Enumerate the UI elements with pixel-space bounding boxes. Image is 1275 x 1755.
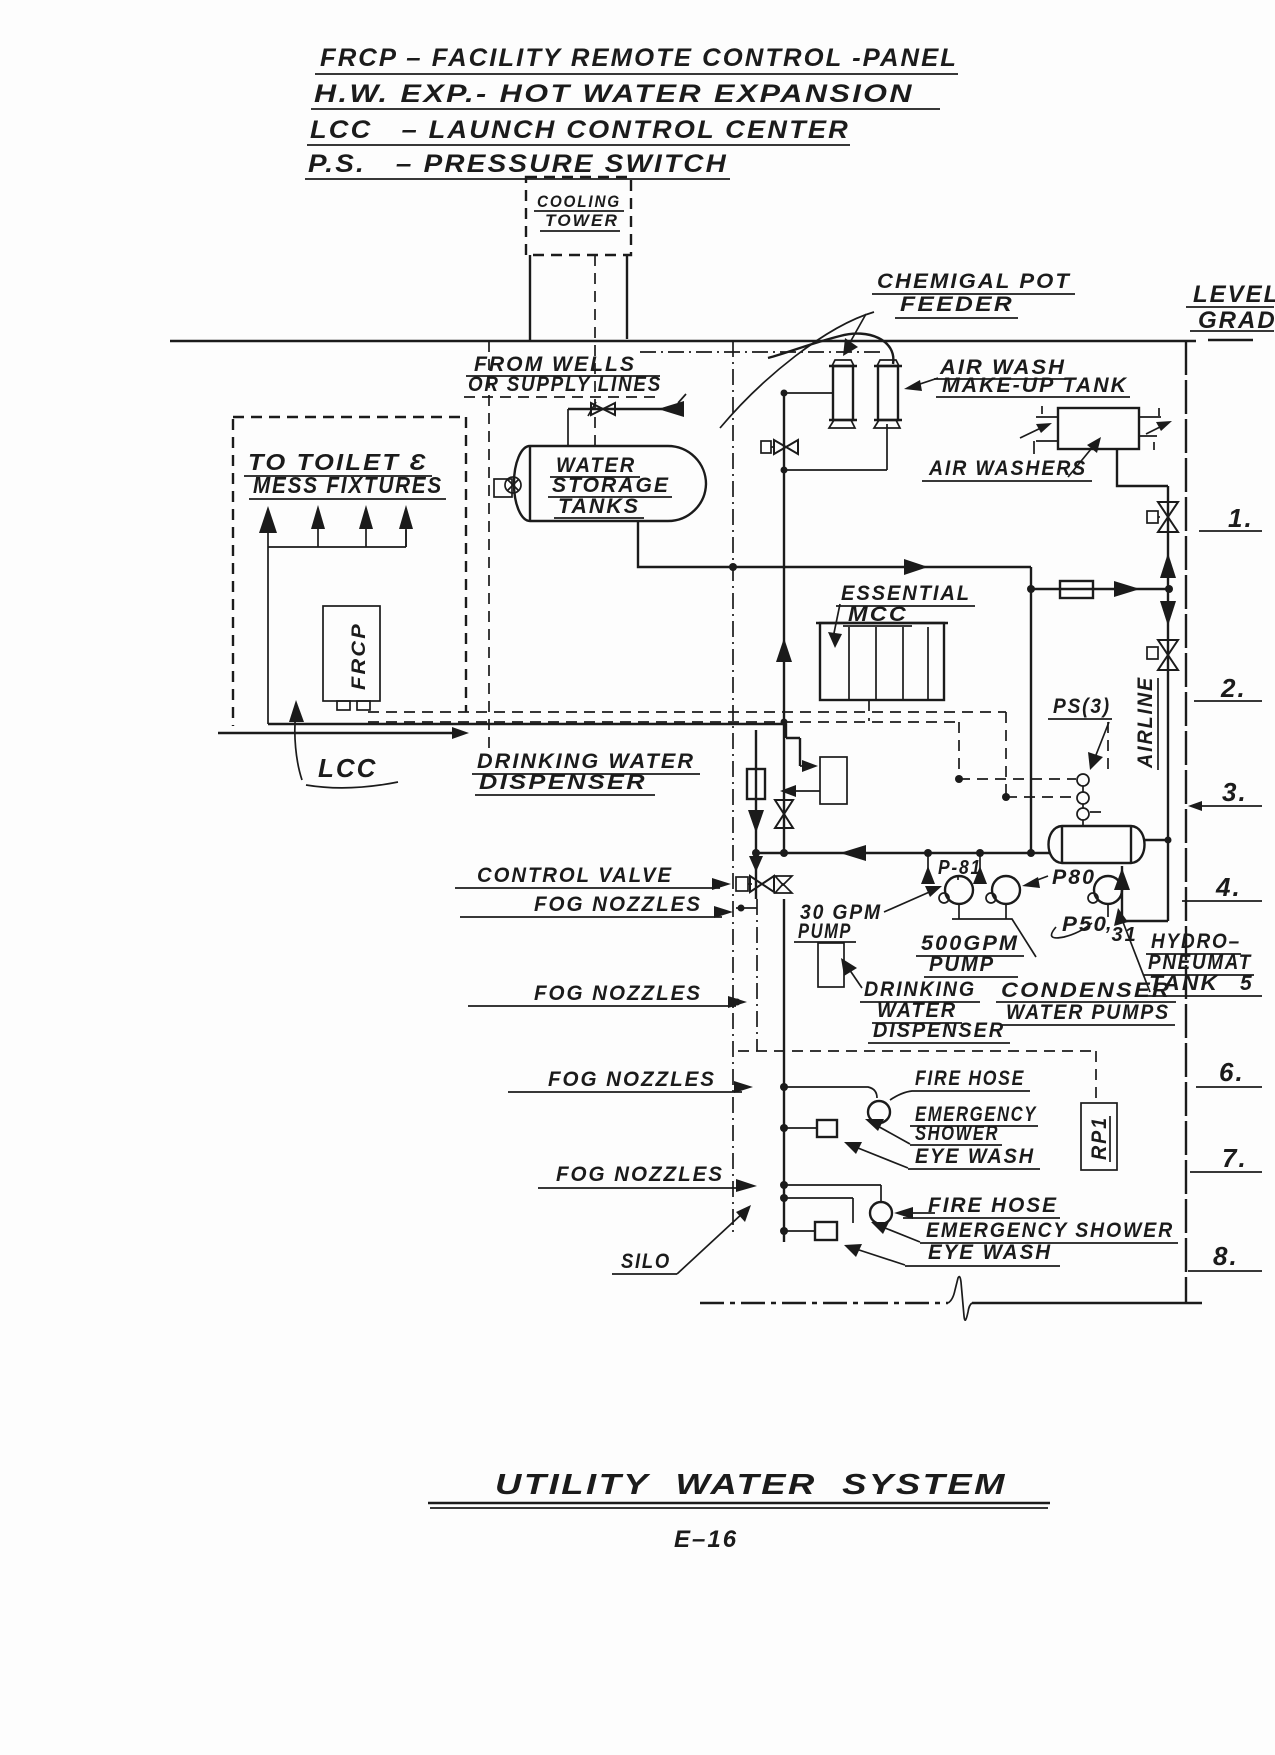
eye wash 2 branches [780,1194,853,1235]
toilet-mess dashed box [233,417,466,726]
eye wash 1 [817,1120,837,1137]
fog nozzles label 4 [538,1163,757,1192]
svg-text:STORAGE: STORAGE [552,474,670,497]
svg-text:TANKS: TANKS [558,495,640,518]
junction dot riser x784 and control line [781,719,788,726]
relief valve on feeder riser [775,800,793,828]
air washer outlet pipe [1117,449,1168,486]
svg-text:P80: P80 [1052,866,1096,889]
dashed vertical at x489 [488,341,490,758]
riser down arrow [748,810,764,833]
RP1 box [1081,1103,1117,1170]
airline up arrow [1160,553,1176,578]
condenser water pumps label [996,979,1176,1025]
svg-text:RP1: RP1 [1088,1116,1111,1160]
svg-text:FOG NOZZLES: FOG NOZZLES [534,982,702,1005]
fire hose 2 branch [780,1181,881,1202]
svg-text:MESS FIXTURES: MESS FIXTURES [253,472,443,498]
control line A to switch 2 [1002,793,1076,801]
PS(3) label [1048,695,1112,770]
svg-text:P.S. – PRESSURE SWITCH: P.S. – PRESSURE SWITCH [308,150,728,178]
hydro-pneumat tank label [1143,930,1262,996]
svg-text:ESSENTIAL: ESSENTIAL [841,582,971,605]
valve below air washers [1147,502,1178,532]
legend line PS [305,150,730,179]
water storage tank [494,446,706,521]
emergency shower 1 label [865,1103,1038,1145]
dashed control line A from FRCP [368,712,1006,797]
control valve label [455,864,731,890]
cooling tower box [526,177,631,255]
air wash make-up tank label [904,356,1130,397]
riser down arrow 2 [749,856,763,872]
svg-text:6.: 6. [1219,1057,1245,1087]
pump P-81 [939,876,973,904]
pump 500gpm riser [973,853,987,884]
legend line HW EXP [311,80,940,109]
riser dashed continuation [756,899,758,1051]
supply line from wells [568,394,686,417]
fixture arrow 4 [399,505,413,547]
tank outlet to airline [1143,837,1172,844]
svg-text:DISPENSER: DISPENSER [479,771,647,794]
dashed control line B from FRCP [368,722,959,779]
feeder outlet pipe [781,424,888,474]
airline vertical pipe [1167,486,1169,921]
pressure switch circles [1077,774,1089,827]
svg-text:OR SUPPLY LINES: OR SUPPLY LINES [468,373,662,396]
svg-text:HYDRO–: HYDRO– [1151,930,1241,953]
loop pipe over vessels [768,334,893,364]
P-81 label [938,857,982,880]
cooling tower right leg [626,255,628,339]
fixture header pipe [268,530,406,547]
eye wash 2 [815,1222,837,1240]
chemical pot feeder vessel [829,360,857,428]
fog nozzles label 3 [508,1068,753,1093]
riser pipe x756 [755,730,757,899]
svg-text:MAKE-UP TANK: MAKE-UP TANK [942,374,1128,397]
airline down arrow [1160,601,1176,626]
legend line LCC [307,116,850,145]
svg-text:PUMP: PUMP [798,920,852,943]
main header pipe to MCC column [729,559,1031,575]
svg-text:E–16: E–16 [674,1526,738,1553]
svg-text:FOG NOZZLES: FOG NOZZLES [548,1068,716,1091]
hydro tank label leader [1114,908,1150,992]
hydro-pneumatic tank [1049,826,1145,863]
drinking water dispenser lower label [860,978,1010,1043]
label TO TOILET AND MESS FIXTURES [244,449,446,499]
fixture arrow 1 [259,506,277,547]
svg-text:AIR WASHERS: AIR WASHERS [928,457,1087,480]
tank outlet pipe [638,521,733,567]
pump drain piping [952,904,1036,957]
svg-text:SILO: SILO [621,1250,671,1273]
fire hose 1 label [890,1067,1030,1100]
svg-text:FRCP – FACILITY REMOTE CONTROL: FRCP – FACILITY REMOTE CONTROL -PANEL [320,44,958,72]
left short level line [218,727,469,739]
drinking water dispenser upper box [800,757,847,804]
PS dashed boundary [1090,722,1108,812]
svg-text:8.: 8. [1213,1241,1239,1271]
level tick 3 [1188,777,1262,811]
svg-text:FRCP: FRCP [349,622,370,690]
fixture arrow 2 [311,505,325,547]
svg-text:AIRLINE: AIRLINE [1134,676,1157,769]
svg-text:TANK: TANK [1149,972,1219,995]
svg-text:5: 5 [1240,972,1254,995]
strainer on riser [747,769,765,799]
chemical pot feeder label [843,270,1075,356]
svg-text:P-81: P-81 [938,857,982,879]
svg-text:EYE WASH: EYE WASH [915,1145,1035,1168]
svg-text:PUMP: PUMP [929,953,995,976]
level header text GRADE [1190,307,1275,334]
pump 500gpm [986,876,1020,904]
silo wall dash-dot vertical [732,341,734,1233]
LCC label [306,753,398,788]
feeder riser vertical [776,393,792,853]
cooling tower center dashed drop to tank [594,255,596,446]
pump P-81 riser [921,853,935,884]
30 gpm pump label [794,886,942,943]
svg-text:CONDENSER: CONDENSER [1001,979,1171,1002]
air washers label [922,437,1101,481]
airline elbow to pumps [1114,866,1168,921]
500 gpm pump label [916,932,1024,977]
svg-text:3.: 3. [1222,777,1248,807]
feeder inlet pipe [781,390,834,397]
svg-text:COOLING: COOLING [537,192,621,211]
level tick 7 [1190,1143,1262,1173]
svg-text:PS(3): PS(3) [1053,695,1111,718]
chemical pot feeder leader curve [720,312,874,428]
dispenser outlet arrow left [780,785,820,797]
supply line to fixtures [268,724,800,766]
level tick 6 [1196,1057,1262,1087]
fixture arrow 3 [359,505,373,547]
air washers box [1020,406,1172,454]
LCC leader arrow [289,700,304,780]
svg-text:EMERGENCY SHOWER: EMERGENCY SHOWER [926,1219,1174,1242]
svg-text:CONTROL VALVE: CONTROL VALVE [477,864,673,887]
svg-text:LEVEL: LEVEL [1193,281,1275,308]
eye wash 1 branch [780,1124,817,1132]
essential MCC box [816,623,948,700]
svg-text:DISPENSER: DISPENSER [873,1019,1005,1042]
svg-text:4.: 4. [1215,872,1242,902]
svg-text:CHEMIGAL POT: CHEMIGAL POT [877,270,1071,293]
control line B to switch 1 [955,775,1076,783]
level tick 1 [1199,503,1262,533]
right border vertical line [1185,341,1187,1303]
bottom boundary line with break [700,1277,1202,1321]
emergency shower 2 label [871,1219,1178,1243]
cooling tower left leg [529,255,531,341]
level tick 4 [1182,872,1262,902]
legend line FRCP [315,44,958,74]
dashed drop from MCC [868,700,870,721]
AIRLINE text [1134,676,1158,770]
fire hose 1 [868,1101,890,1123]
control valve assembly [736,876,774,892]
fog nozzles label 1 [460,893,757,918]
dash-dot line below grade [640,351,880,353]
svg-text:PNEUMAT: PNEUMAT [1148,951,1252,974]
essential MCC label [828,582,975,648]
svg-text:500GPM: 500GPM [921,932,1019,955]
condenser pump P50 [1088,876,1122,917]
FRCP box [323,606,380,710]
feeder riser valve [761,440,798,454]
fixture drop pipe [267,547,269,724]
supply drop to tank [567,409,569,446]
svg-text:FIRE HOSE: FIRE HOSE [928,1194,1058,1217]
svg-text:UTILITY WATER SYSTEM: UTILITY WATER SYSTEM [495,1469,1007,1501]
air wash make-up tank vessel [874,360,902,428]
svg-text:DRINKING WATER: DRINKING WATER [477,750,695,773]
fire hose 1 branch [780,1083,877,1098]
silo label [612,1205,751,1274]
svg-text:H.W. EXP.- HOT WATER EXPANSION: H.W. EXP.- HOT WATER EXPANSION [314,80,914,108]
svg-text:7.: 7. [1222,1143,1248,1173]
dashed line to RP1 [738,1051,1096,1103]
grade line [170,340,1253,341]
svg-text:2.: 2. [1220,673,1247,703]
svg-text:LCC – LAUNCH CONTROL CENTER: LCC – LAUNCH CONTROL CENTER [310,116,850,144]
drinking water dispenser label upper [472,750,700,795]
level header text LEVEL [1186,281,1275,308]
svg-text:FEEDER: FEEDER [900,293,1014,316]
svg-text:LCC: LCC [318,753,377,783]
water storage tank label [548,454,672,518]
second valve on feeder riser [775,876,792,893]
drinking water dispenser lower box [818,943,862,988]
fire hose 2 [870,1202,892,1224]
fire hose 2 label [894,1194,1060,1219]
main pump header pipe [752,845,1050,861]
eye wash 1 label [844,1142,1040,1169]
hose riser group 1 vertical [783,899,785,1242]
branch to airline [1027,581,1173,598]
svg-text:FOG NOZZLES: FOG NOZZLES [556,1163,724,1186]
svg-text:EYE WASH: EYE WASH [928,1241,1052,1264]
from wells label [464,353,662,397]
svg-text:FIRE HOSE: FIRE HOSE [915,1067,1025,1090]
title [428,1469,1050,1508]
airline D valve [1147,640,1178,670]
P50/31 label [1052,913,1138,946]
eye wash 2 label [844,1241,1060,1266]
svg-text:P50: P50 [1062,913,1108,936]
svg-text:’31: ’31 [1104,924,1138,946]
svg-text:WATER PUMPS: WATER PUMPS [1006,1001,1170,1024]
svg-text:FOG NOZZLES: FOG NOZZLES [534,893,702,916]
svg-text:1.: 1. [1228,503,1254,533]
svg-text:SHOWER: SHOWER [915,1122,999,1145]
level tick 2 [1194,673,1262,703]
center vertical pipe [1030,567,1032,852]
fog nozzles label 2 [468,982,747,1008]
svg-text:TOWER: TOWER [545,211,619,230]
P80 label [1022,866,1096,889]
level tick 8 [1188,1241,1262,1271]
svg-text:GRADE: GRADE [1198,307,1275,334]
svg-text:DRINKING: DRINKING [864,978,976,1001]
